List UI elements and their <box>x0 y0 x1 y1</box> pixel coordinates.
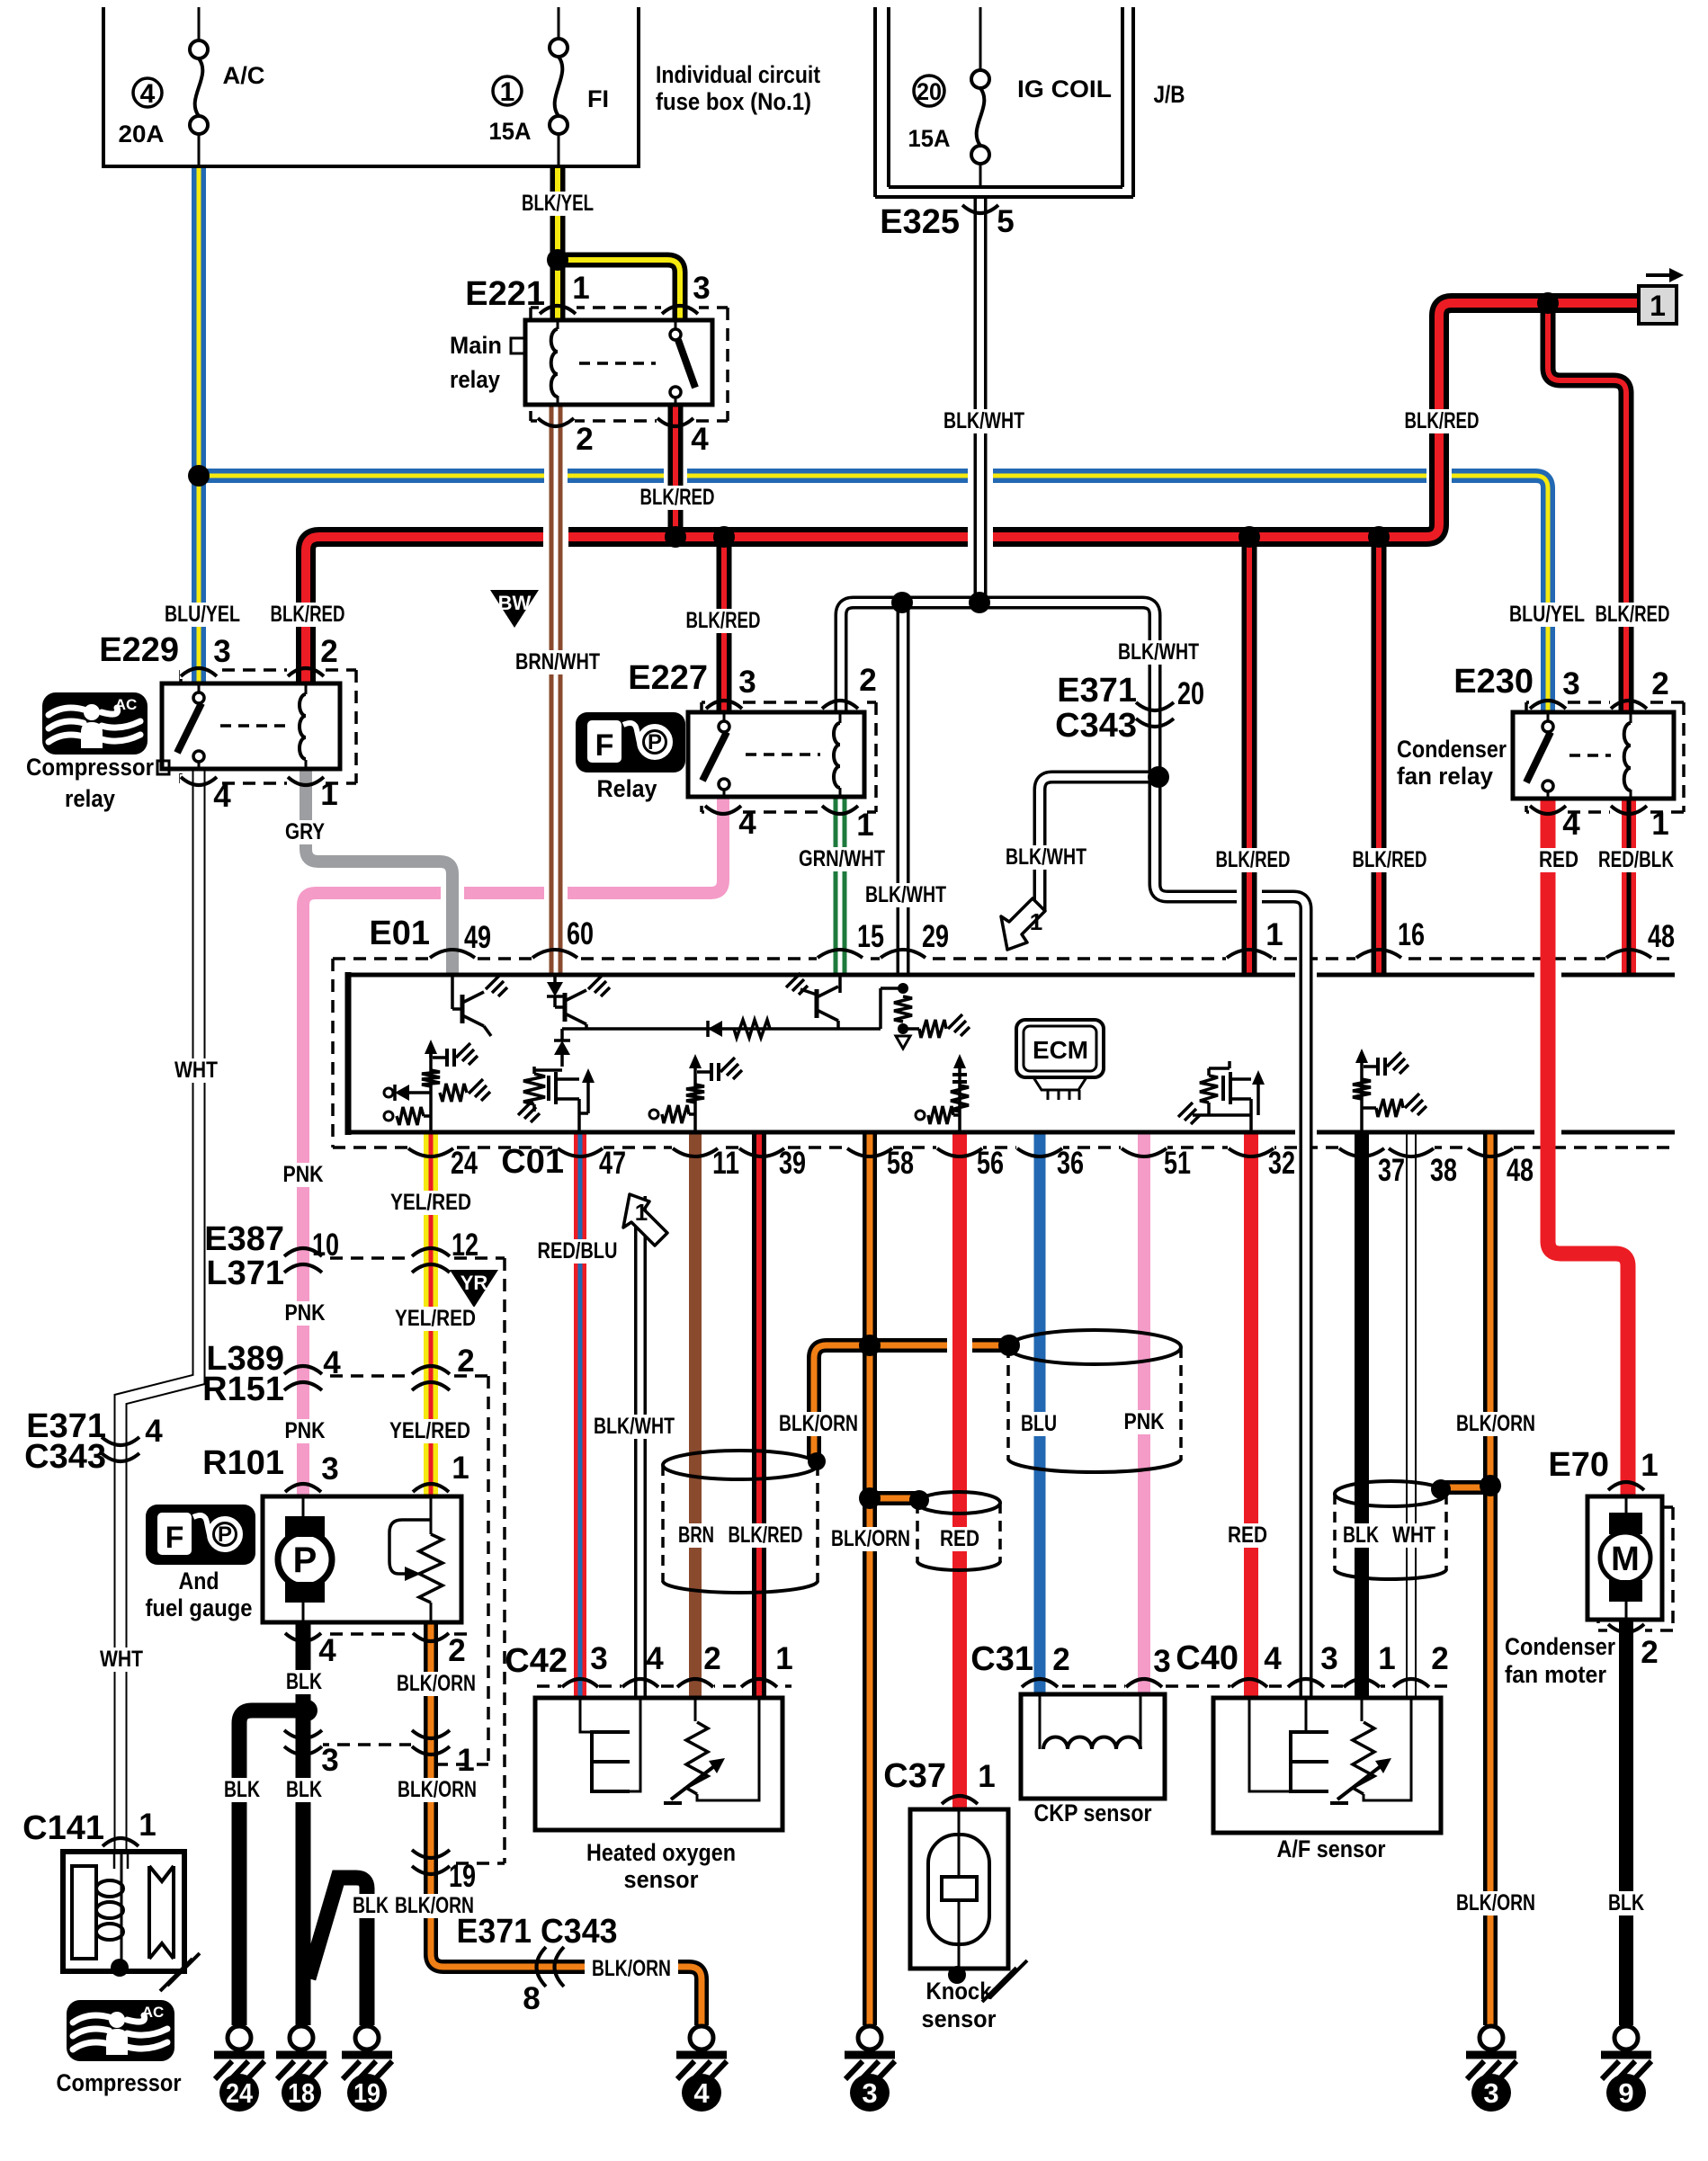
svg-text:P: P <box>218 1523 232 1547</box>
svg-text:PNK: PNK <box>283 1162 324 1187</box>
svg-text:Main: Main <box>450 332 502 359</box>
svg-text:4: 4 <box>693 2077 710 2109</box>
svg-text:ECM: ECM <box>1033 1036 1088 1064</box>
svg-text:1: 1 <box>1641 1448 1658 1483</box>
svg-text:AC: AC <box>115 696 138 713</box>
svg-text:BLK/WHT: BLK/WHT <box>943 408 1024 433</box>
svg-text:E227: E227 <box>628 659 708 697</box>
svg-text:relay: relay <box>65 785 115 812</box>
svg-text:fuse box (No.1): fuse box (No.1) <box>656 88 811 115</box>
svg-text:C31: C31 <box>970 1640 1033 1678</box>
svg-text:Condenser: Condenser <box>1397 736 1507 763</box>
svg-text:C141: C141 <box>22 1809 104 1847</box>
svg-text:20: 20 <box>917 78 942 105</box>
svg-text:4: 4 <box>323 1345 341 1380</box>
svg-text:J/B: J/B <box>1154 81 1185 108</box>
svg-text:E387: E387 <box>204 1220 284 1258</box>
svg-text:A/C: A/C <box>223 62 265 89</box>
svg-text:sensor: sensor <box>624 1866 699 1893</box>
svg-text:16: 16 <box>1398 917 1425 952</box>
svg-text:3: 3 <box>321 1451 338 1487</box>
svg-text:BLK/RED: BLK/RED <box>1596 602 1670 627</box>
svg-text:1: 1 <box>500 77 515 107</box>
svg-text:51: 51 <box>1164 1146 1191 1181</box>
svg-text:11: 11 <box>712 1146 739 1181</box>
svg-text:4: 4 <box>691 422 709 457</box>
svg-text:1: 1 <box>572 271 589 306</box>
svg-text:P: P <box>293 1540 317 1580</box>
svg-text:E01: E01 <box>369 915 430 952</box>
svg-text:4: 4 <box>1562 807 1580 842</box>
svg-text:58: 58 <box>887 1146 914 1181</box>
svg-text:47: 47 <box>599 1146 626 1181</box>
svg-text:3: 3 <box>738 665 756 700</box>
svg-text:3: 3 <box>321 1743 338 1778</box>
svg-text:1: 1 <box>1030 908 1042 935</box>
svg-text:19: 19 <box>449 1859 476 1894</box>
svg-text:BLK/WHT: BLK/WHT <box>865 882 946 907</box>
svg-text:29: 29 <box>922 919 949 954</box>
svg-text:56: 56 <box>977 1146 1004 1181</box>
svg-text:C343: C343 <box>1055 707 1137 745</box>
svg-text:BLK/RED: BLK/RED <box>686 608 761 633</box>
svg-text:1: 1 <box>856 808 873 843</box>
svg-text:F: F <box>595 728 614 763</box>
svg-text:RED: RED <box>1539 847 1578 872</box>
svg-text:3: 3 <box>1320 1641 1337 1676</box>
svg-text:2: 2 <box>576 422 593 457</box>
svg-text:BLK/WHT: BLK/WHT <box>1006 844 1087 870</box>
svg-text:BLK/RED: BLK/RED <box>1405 408 1480 433</box>
svg-text:BLK/WHT: BLK/WHT <box>594 1414 675 1439</box>
svg-text:4: 4 <box>213 779 231 814</box>
svg-text:1: 1 <box>320 777 337 812</box>
svg-text:1: 1 <box>452 1451 469 1486</box>
svg-text:BLK/ORN: BLK/ORN <box>1456 1890 1535 1915</box>
svg-text:C01: C01 <box>501 1143 564 1181</box>
svg-text:24: 24 <box>226 2077 254 2109</box>
svg-text:R101: R101 <box>202 1444 284 1482</box>
svg-text:1: 1 <box>775 1641 792 1676</box>
svg-text:YEL/RED: YEL/RED <box>390 1190 471 1215</box>
svg-text:BLK/ORN: BLK/ORN <box>398 1777 477 1802</box>
svg-text:48: 48 <box>1648 919 1675 954</box>
svg-text:2: 2 <box>859 663 876 698</box>
svg-text:3: 3 <box>1483 2077 1498 2109</box>
svg-text:L371: L371 <box>206 1255 284 1292</box>
svg-text:38: 38 <box>1430 1153 1457 1188</box>
svg-text:4: 4 <box>145 1414 163 1449</box>
svg-text:YR: YR <box>461 1272 488 1294</box>
svg-text:1: 1 <box>1651 807 1668 842</box>
svg-text:PNK: PNK <box>285 1418 326 1443</box>
svg-text:2: 2 <box>1431 1641 1448 1676</box>
svg-text:PNK: PNK <box>1124 1409 1165 1434</box>
svg-text:BLK/ORN: BLK/ORN <box>397 1671 476 1696</box>
svg-text:1: 1 <box>635 1199 648 1226</box>
svg-text:Relay: Relay <box>597 775 657 802</box>
svg-text:AC: AC <box>142 2004 165 2021</box>
svg-text:1: 1 <box>1265 917 1283 952</box>
svg-text:BLK/RED: BLK/RED <box>640 485 715 510</box>
svg-text:E229: E229 <box>99 631 179 669</box>
svg-text:BLK/ORN: BLK/ORN <box>592 1956 671 1981</box>
svg-text:60: 60 <box>567 916 594 951</box>
svg-text:24: 24 <box>451 1146 478 1181</box>
svg-text:32: 32 <box>1268 1146 1295 1181</box>
svg-text:C343: C343 <box>24 1438 106 1476</box>
svg-text:YEL/RED: YEL/RED <box>395 1306 476 1331</box>
svg-text:37: 37 <box>1378 1153 1405 1188</box>
svg-text:4: 4 <box>318 1633 336 1668</box>
svg-text:1: 1 <box>457 1743 474 1778</box>
svg-text:4: 4 <box>738 806 756 841</box>
svg-text:RED/BLU: RED/BLU <box>538 1238 618 1264</box>
svg-text:C40: C40 <box>1176 1639 1239 1677</box>
svg-text:BLK/RED: BLK/RED <box>1216 847 1291 872</box>
svg-text:36: 36 <box>1057 1146 1084 1181</box>
svg-text:BRN: BRN <box>678 1523 714 1548</box>
svg-text:IG COIL: IG COIL <box>1017 76 1112 103</box>
svg-text:fan relay: fan relay <box>1397 763 1493 790</box>
svg-text:BLK: BLK <box>1343 1523 1379 1548</box>
svg-text:20: 20 <box>1177 676 1204 711</box>
svg-text:3: 3 <box>590 1641 607 1676</box>
svg-text:And: And <box>179 1567 219 1594</box>
svg-text:BLK: BLK <box>1608 1890 1644 1915</box>
svg-text:BLU/YEL: BLU/YEL <box>1509 602 1585 627</box>
svg-text:3: 3 <box>1153 1644 1170 1679</box>
svg-text:YEL/RED: YEL/RED <box>389 1418 470 1443</box>
svg-text:Knock: Knock <box>926 1978 993 2005</box>
svg-text:1: 1 <box>978 1759 995 1794</box>
svg-text:1: 1 <box>1650 290 1666 322</box>
svg-text:3: 3 <box>213 634 230 669</box>
svg-text:Heated oxygen: Heated oxygen <box>586 1839 736 1866</box>
svg-text:BRN/WHT: BRN/WHT <box>515 649 600 674</box>
svg-text:E325: E325 <box>880 203 960 241</box>
svg-text:BLK: BLK <box>224 1777 260 1802</box>
svg-text:P: P <box>648 730 662 755</box>
svg-text:Condenser: Condenser <box>1505 1633 1615 1660</box>
svg-text:sensor: sensor <box>922 2005 997 2032</box>
svg-text:E371 C343: E371 C343 <box>457 1913 618 1951</box>
svg-text:BLK: BLK <box>286 1777 322 1802</box>
svg-text:relay: relay <box>450 366 500 393</box>
svg-text:BLK/ORN: BLK/ORN <box>831 1526 910 1551</box>
svg-text:20A: 20A <box>119 121 165 147</box>
svg-text:E70: E70 <box>1548 1446 1609 1484</box>
svg-text:BLK/ORN: BLK/ORN <box>1456 1411 1535 1436</box>
svg-text:BLK: BLK <box>353 1893 389 1918</box>
svg-text:WHT: WHT <box>100 1647 143 1672</box>
svg-text:WHT: WHT <box>174 1058 218 1083</box>
svg-text:2: 2 <box>448 1633 465 1668</box>
svg-text:2: 2 <box>1651 666 1668 701</box>
svg-text:4: 4 <box>646 1641 664 1676</box>
svg-text:C37: C37 <box>883 1757 946 1795</box>
svg-text:E221: E221 <box>465 275 545 313</box>
svg-text:BLK/YEL: BLK/YEL <box>522 191 594 216</box>
svg-text:15A: 15A <box>489 118 532 145</box>
svg-text:15A: 15A <box>908 125 951 152</box>
svg-text:12: 12 <box>452 1228 478 1263</box>
svg-text:1: 1 <box>139 1808 156 1843</box>
svg-text:2: 2 <box>457 1344 474 1379</box>
svg-text:1: 1 <box>1378 1641 1395 1676</box>
svg-text:R151: R151 <box>202 1371 284 1408</box>
svg-text:BLK: BLK <box>286 1669 322 1694</box>
svg-text:M: M <box>1611 1540 1640 1578</box>
svg-text:BLU/YEL: BLU/YEL <box>165 602 240 627</box>
svg-text:GRN/WHT: GRN/WHT <box>799 846 885 871</box>
svg-text:RED/BLK: RED/BLK <box>1598 847 1674 872</box>
svg-text:2: 2 <box>703 1641 720 1676</box>
svg-text:4: 4 <box>1264 1641 1282 1676</box>
svg-text:A/F sensor: A/F sensor <box>1277 1835 1386 1862</box>
svg-text:5: 5 <box>997 204 1014 239</box>
svg-text:RED: RED <box>1228 1523 1267 1548</box>
svg-text:BLK/RED: BLK/RED <box>729 1523 803 1548</box>
svg-text:3: 3 <box>693 271 710 306</box>
svg-text:F: F <box>165 1521 184 1555</box>
svg-text:BW: BW <box>498 592 532 614</box>
svg-text:2: 2 <box>320 634 337 669</box>
svg-text:GRY: GRY <box>285 819 325 844</box>
svg-text:2: 2 <box>1052 1642 1069 1677</box>
svg-text:BLK/RED: BLK/RED <box>271 602 345 627</box>
svg-text:8: 8 <box>523 1981 540 2016</box>
svg-text:3: 3 <box>862 2077 877 2109</box>
svg-text:BLK/RED: BLK/RED <box>1353 847 1427 872</box>
svg-text:48: 48 <box>1507 1153 1534 1188</box>
svg-text:4: 4 <box>140 79 156 109</box>
svg-text:49: 49 <box>464 920 491 955</box>
svg-text:BLK/ORN: BLK/ORN <box>779 1411 858 1436</box>
svg-text:C42: C42 <box>505 1642 568 1680</box>
svg-text:3: 3 <box>1562 666 1579 701</box>
svg-text:15: 15 <box>857 919 884 954</box>
svg-text:FI: FI <box>587 85 609 112</box>
svg-text:10: 10 <box>312 1228 339 1263</box>
svg-text:39: 39 <box>779 1146 806 1181</box>
svg-text:fan moter: fan moter <box>1505 1661 1606 1688</box>
svg-text:Compressor: Compressor <box>26 754 154 781</box>
svg-text:Compressor: Compressor <box>57 2069 182 2096</box>
svg-text:RED: RED <box>940 1526 979 1551</box>
svg-text:2: 2 <box>1641 1635 1658 1670</box>
svg-text:WHT: WHT <box>1392 1523 1435 1548</box>
svg-text:19: 19 <box>353 2077 380 2109</box>
svg-text:E230: E230 <box>1453 663 1534 701</box>
svg-text:fuel gauge: fuel gauge <box>146 1594 253 1621</box>
svg-text:CKP sensor: CKP sensor <box>1034 1799 1152 1826</box>
svg-text:Individual circuit: Individual circuit <box>656 61 820 88</box>
svg-text:18: 18 <box>288 2077 315 2109</box>
svg-text:PNK: PNK <box>285 1300 326 1326</box>
svg-text:E371: E371 <box>1057 672 1137 710</box>
svg-text:BLK/WHT: BLK/WHT <box>1118 639 1199 665</box>
svg-text:9: 9 <box>1618 2077 1633 2109</box>
svg-text:BLU: BLU <box>1021 1411 1057 1436</box>
